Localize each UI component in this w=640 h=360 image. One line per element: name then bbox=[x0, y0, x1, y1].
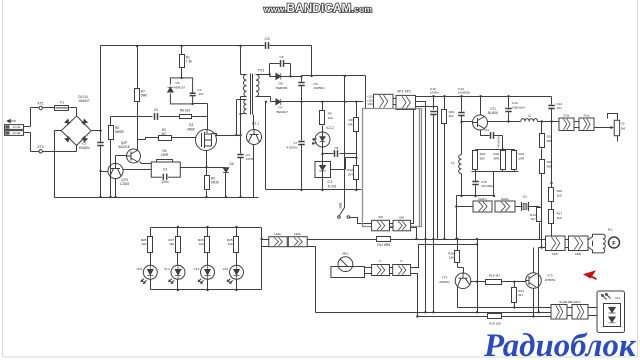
svg-text:R12 8R8: R12 8R8 bbox=[377, 243, 390, 247]
svg-text:24k: 24k bbox=[348, 122, 353, 126]
svg-text:47n/400v: 47n/400v bbox=[481, 184, 494, 188]
svg-text:1k0: 1k0 bbox=[199, 242, 204, 246]
svg-text:SW: SW bbox=[399, 216, 404, 220]
svg-text:SB1: SB1 bbox=[339, 202, 343, 208]
svg-text:C11: C11 bbox=[484, 128, 489, 132]
svg-text:F1: F1 bbox=[60, 100, 64, 104]
svg-text:330/50v: 330/50v bbox=[314, 86, 325, 90]
svg-text:M1: M1 bbox=[608, 228, 612, 232]
svg-text:R 5s: R 5s bbox=[584, 113, 590, 117]
svg-text:4k7: 4k7 bbox=[518, 293, 523, 297]
svg-text:AC 220: AC 220 bbox=[13, 126, 21, 129]
svg-text:D5: D5 bbox=[176, 81, 180, 85]
svg-text:1n5/600v: 1n5/600v bbox=[458, 91, 470, 95]
svg-text:Q1: Q1 bbox=[523, 194, 527, 198]
svg-text:IC1.1: IC1.1 bbox=[252, 122, 260, 126]
svg-text:10n: 10n bbox=[199, 92, 204, 96]
svg-text:GND: GND bbox=[367, 103, 373, 106]
svg-text:2k4: 2k4 bbox=[348, 172, 353, 176]
svg-text:SM1: SM1 bbox=[342, 251, 349, 255]
svg-text:24мГц: 24мГц bbox=[478, 197, 487, 201]
svg-text:10/50v: 10/50v bbox=[430, 91, 439, 95]
svg-text:FEN: FEN bbox=[552, 252, 558, 256]
svg-text:SW: SW bbox=[378, 215, 383, 219]
svg-text:LED+: LED+ bbox=[294, 232, 302, 236]
svg-text:15k: 15k bbox=[449, 256, 454, 260]
svg-text:4K7: 4K7 bbox=[161, 132, 167, 136]
svg-text:10/50: 10/50 bbox=[246, 157, 254, 161]
svg-text:K: K bbox=[400, 259, 402, 263]
svg-text:+12U: +12U bbox=[367, 96, 373, 99]
svg-text:HER383: HER383 bbox=[276, 86, 288, 90]
svg-text:G3: G3 bbox=[189, 123, 193, 127]
svg-text:K: K bbox=[379, 259, 381, 263]
svg-text:47u/400v: 47u/400v bbox=[497, 136, 501, 148]
svg-text:1k0: 1k0 bbox=[328, 116, 333, 120]
svg-text:D6: D6 bbox=[229, 162, 233, 166]
svg-text:C5: C5 bbox=[154, 108, 158, 112]
svg-text:TV1: TV1 bbox=[258, 68, 265, 72]
svg-text:1k0: 1k0 bbox=[169, 242, 174, 246]
svg-text:XT2: XT2 bbox=[37, 145, 44, 149]
svg-text:10/400v: 10/400v bbox=[78, 146, 90, 150]
svg-text:5M0: 5M0 bbox=[141, 94, 147, 98]
svg-text:C1: C1 bbox=[82, 142, 86, 146]
svg-text:VL5: VL5 bbox=[136, 267, 142, 271]
svg-text:R15 4k7: R15 4k7 bbox=[489, 274, 501, 278]
svg-text:C6: C6 bbox=[280, 55, 284, 59]
svg-text:2k4: 2k4 bbox=[449, 114, 454, 118]
svg-text:1N4007: 1N4007 bbox=[78, 99, 90, 103]
svg-text:F: F bbox=[612, 241, 616, 247]
svg-text:1k0: 1k0 bbox=[557, 216, 562, 220]
svg-text:4N60: 4N60 bbox=[187, 127, 195, 131]
svg-text:4k7: 4k7 bbox=[531, 217, 536, 221]
svg-text:1k0: 1k0 bbox=[228, 242, 233, 246]
svg-text:www.BANDICAM.com: www.BANDICAM.com bbox=[263, 2, 373, 15]
svg-text:R6 1k0: R6 1k0 bbox=[180, 108, 190, 112]
svg-text:2N5401: 2N5401 bbox=[439, 280, 450, 284]
svg-text:56R: 56R bbox=[547, 164, 553, 168]
svg-text:1k0: 1k0 bbox=[557, 193, 562, 197]
svg-text:Радиоблок: Радиоблок bbox=[483, 328, 637, 360]
svg-text:100u/1kV: 100u/1kV bbox=[512, 105, 526, 109]
svg-text:C/3: C/3 bbox=[265, 37, 270, 41]
svg-text:VL4: VL4 bbox=[164, 267, 170, 271]
svg-text:5A1015: 5A1015 bbox=[119, 145, 130, 149]
svg-text:3R9: 3R9 bbox=[494, 156, 500, 160]
svg-text:C1815: C1815 bbox=[120, 182, 130, 186]
svg-text:C3: C3 bbox=[163, 167, 167, 171]
svg-text:R 5s: R 5s bbox=[564, 113, 570, 117]
svg-text:XP1 XP1: XP1 XP1 bbox=[397, 90, 411, 94]
svg-text:XS: XS bbox=[621, 121, 625, 125]
svg-text:10n: 10n bbox=[556, 106, 561, 110]
svg-text:5k0: 5k0 bbox=[480, 156, 485, 160]
svg-text:24мГц: 24мГц bbox=[501, 197, 510, 201]
svg-text:130R: 130R bbox=[161, 153, 169, 157]
svg-text:FEN: FEN bbox=[575, 252, 581, 256]
svg-text:470/25v: 470/25v bbox=[286, 146, 297, 150]
svg-text:0R39: 0R39 bbox=[211, 181, 219, 185]
svg-text:L1: L1 bbox=[451, 161, 455, 165]
svg-text:VL2: VL2 bbox=[223, 267, 229, 271]
svg-text:AC 220: AC 220 bbox=[13, 132, 21, 135]
svg-text:BU406: BU406 bbox=[488, 111, 498, 115]
svg-text:5k0: 5k0 bbox=[621, 126, 626, 130]
svg-text:B LED RB LED R: B LED RB LED R bbox=[560, 300, 581, 304]
svg-text:VL3: VL3 bbox=[194, 267, 200, 271]
svg-text:10R: 10R bbox=[518, 156, 524, 160]
svg-text:5W0R: 5W0R bbox=[115, 130, 125, 134]
svg-text:L2: L2 bbox=[528, 113, 532, 117]
svg-text:220n: 220n bbox=[161, 180, 168, 184]
svg-text:C7: C7 bbox=[294, 141, 298, 145]
svg-text:56R: 56R bbox=[547, 139, 553, 143]
svg-text:TL431: TL431 bbox=[327, 184, 336, 188]
svg-text:1k0: 1k0 bbox=[141, 242, 146, 246]
svg-text:7.3k: 7.3k bbox=[186, 60, 192, 64]
svg-text:R16 15k: R16 15k bbox=[489, 322, 501, 326]
svg-text:IC1.2: IC1.2 bbox=[326, 126, 334, 130]
svg-text:+12U: +12U bbox=[367, 99, 373, 102]
svg-text:VL1: VL1 bbox=[615, 296, 621, 300]
svg-text:2N5551: 2N5551 bbox=[545, 278, 556, 282]
svg-text:XT1: XT1 bbox=[37, 102, 44, 106]
svg-text:HER107: HER107 bbox=[276, 110, 288, 114]
svg-text:LED+: LED+ bbox=[274, 232, 282, 236]
svg-text:HER107: HER107 bbox=[174, 86, 186, 90]
svg-text:C8: C8 bbox=[334, 146, 338, 150]
